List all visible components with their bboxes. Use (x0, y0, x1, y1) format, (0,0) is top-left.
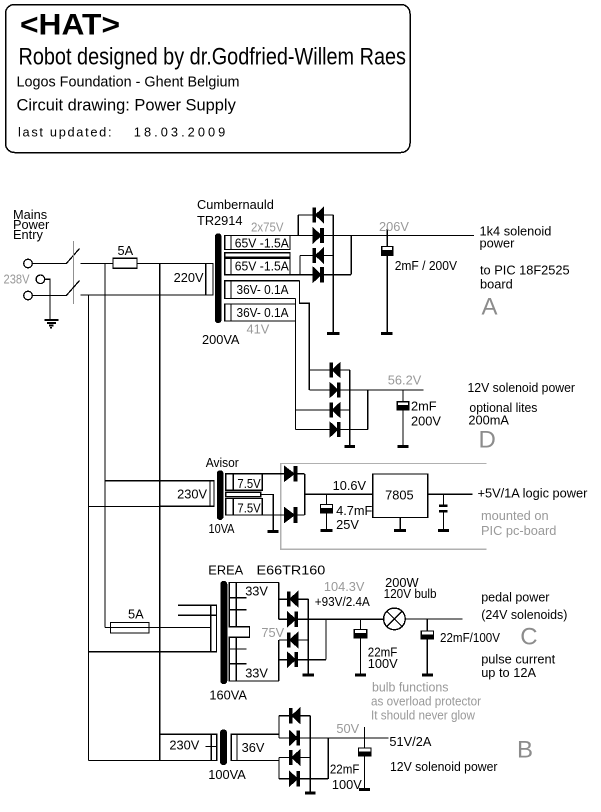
wire d11 row (279, 598, 309, 600)
diode D9 (285, 467, 297, 481)
wire DC out to 7805 (305, 493, 373, 495)
wire bus1 to erea primary bottom (89, 651, 217, 653)
wire bus1 to avisor primary bottom (89, 505, 215, 507)
svg-text:230V: 230V (169, 738, 199, 753)
wire d14 cathode join (325, 619, 327, 659)
node 36V-B drop to bridge D (295, 299, 297, 430)
svg-text:A: A (482, 293, 498, 320)
center tap avisor (226, 492, 261, 496)
svg-text:to PIC 18F2525: to PIC 18F2525 (480, 262, 570, 277)
ground mains (44, 319, 58, 321)
svg-text:Entry: Entry (13, 227, 43, 242)
wire d8 cathode join (367, 390, 369, 430)
wire d14 row (279, 659, 326, 661)
wire fuse to primary (137, 263, 213, 265)
svg-text:220V: 220V (174, 270, 204, 285)
wire d5 row (309, 369, 350, 371)
56.2V output rail D (309, 389, 423, 391)
node1 B vertical (278, 716, 280, 738)
winding 36V box B (231, 734, 279, 760)
diode D3 (313, 249, 323, 263)
svg-text:+93V/2.4A: +93V/2.4A (315, 594, 370, 609)
svg-text:mounted on: mounted on (481, 508, 549, 523)
ground bar center tap (268, 530, 279, 533)
svg-text:22mF/100V: 22mF/100V (440, 630, 500, 645)
svg-text:22mF: 22mF (330, 762, 360, 777)
wire L to switch (33, 263, 67, 265)
winding 36V-0.1A upper box (225, 281, 300, 299)
diode D14 (288, 653, 298, 667)
primary B tap tick (206, 746, 217, 748)
ground bar C1 (381, 332, 393, 335)
svg-text:4.7mF: 4.7mF (336, 503, 372, 518)
svg-text:50V: 50V (336, 721, 359, 736)
center tap 2x75V (225, 253, 290, 257)
diode D6 (330, 383, 340, 397)
svg-text:120V bulb: 120V bulb (384, 586, 437, 601)
wire switch2 / primary bottom (81, 294, 213, 296)
wire bridge join avisor (304, 474, 306, 515)
diode D16 (290, 731, 300, 745)
svg-text:36V- 0.1A: 36V- 0.1A (237, 282, 289, 297)
capacitor C7 lead + 50V tick (364, 727, 366, 748)
svg-text:Circuit drawing: Power Supply: Circuit drawing: Power Supply (17, 97, 237, 115)
ground bar C4 (438, 529, 449, 532)
diode D12 (288, 612, 298, 626)
svg-text:up to 12A: up to 12A (481, 665, 536, 680)
svg-text:41V: 41V (247, 322, 270, 337)
ground bar B rail (305, 791, 316, 794)
ground bar C2 (398, 445, 409, 448)
wire d15 row (279, 715, 310, 717)
winding 2x33V box (229, 583, 279, 682)
wire 7805 output (428, 493, 473, 495)
ground bar C3 (321, 529, 333, 532)
bulb 200W (384, 608, 406, 630)
winding 36V-0.1A lower box (225, 304, 296, 321)
wire d1 row (298, 214, 333, 216)
wire N to switch (33, 295, 67, 297)
mains terminal N (24, 291, 33, 300)
svg-text:75V: 75V (261, 625, 284, 640)
section box D gray (281, 464, 487, 550)
bus 1 (88, 295, 90, 761)
wire switch1 to fuse (81, 263, 114, 265)
wire center tap to ground (261, 494, 273, 530)
wire d3 cathode drop (299, 256, 301, 275)
node1 erea right edge (278, 583, 280, 620)
wire d9 row (262, 473, 305, 475)
winding 65V-1.5A upper box (225, 236, 290, 250)
svg-text:Logos Foundation - Ghent Belgi: Logos Foundation - Ghent Belgium (17, 74, 240, 91)
svg-text:2mF: 2mF (411, 399, 437, 414)
svg-text:2mF / 200V: 2mF / 200V (395, 258, 458, 273)
node winding1 top to bridge A (225, 235, 313, 237)
svg-text:7.5V: 7.5V (237, 501, 261, 516)
svg-text:36V: 36V (242, 740, 265, 755)
svg-text:<HAT>: <HAT> (20, 9, 120, 42)
svg-text:10.6V: 10.6V (333, 478, 367, 493)
wire bus2 to avisor primary top (105, 480, 214, 482)
svg-text:D: D (479, 427, 496, 454)
wire bus1 to B primary bottom (89, 760, 217, 762)
capacitor C1 lead + 206V tick (386, 229, 388, 247)
svg-text:100V: 100V (368, 656, 398, 671)
transformer B primary 230V box (160, 734, 217, 760)
svg-text:65V -1.5A: 65V -1.5A (235, 259, 289, 274)
ground rail D (349, 370, 351, 445)
svg-text:power: power (480, 235, 516, 250)
wire d13 row (279, 639, 309, 641)
svg-text:56.2V: 56.2V (388, 373, 422, 388)
svg-text:B: B (517, 737, 533, 764)
wire d18 row (279, 778, 328, 780)
svg-text:230V: 230V (177, 486, 207, 501)
svg-text:Avisor: Avisor (206, 455, 240, 470)
ground bar D rail (345, 445, 355, 448)
svg-text:Robot designed by dr.Godfried: Robot designed by dr.Godfried-Willem Rae… (19, 44, 407, 71)
ground bar C rail (303, 673, 315, 676)
diode D2 (313, 229, 323, 243)
ground bar A rail (327, 332, 339, 335)
capacitor C5 22mF (360, 619, 362, 629)
ground rail C (307, 599, 309, 673)
wire 7805 gnd pin (399, 518, 401, 530)
wire d8 row (296, 429, 368, 431)
diode D18 (290, 772, 300, 786)
fuse F1 5A (113, 258, 137, 268)
svg-text:25V: 25V (336, 517, 359, 532)
svg-text:10VA: 10VA (209, 521, 235, 536)
svg-text:It should never glow: It should never glow (371, 708, 476, 723)
svg-text:+5V/1A logic power: +5V/1A logic power (478, 485, 589, 500)
transformer B core (221, 730, 227, 765)
svg-text:bulb functions: bulb functions (372, 680, 448, 695)
svg-text:238V: 238V (4, 272, 30, 287)
diode D8 (330, 423, 340, 437)
wire d3 row (300, 255, 333, 257)
transformer TR2914 primary 220V box (160, 264, 213, 296)
capacitor C1 2mF/200V (382, 247, 393, 251)
transformer EREA primary box (211, 605, 217, 652)
winding 7.5V upper box (226, 474, 262, 491)
ground bar C7 (359, 788, 370, 791)
svg-text:33V: 33V (245, 666, 268, 681)
svg-text:TR2914: TR2914 (197, 213, 243, 228)
svg-text:200V: 200V (411, 413, 441, 428)
wire d1 cathode drop (297, 215, 299, 236)
ground bar C5 (355, 673, 366, 676)
wire d7 row (296, 409, 350, 411)
svg-text:33V: 33V (245, 584, 268, 599)
svg-text:7.5V: 7.5V (237, 476, 261, 491)
capacitor C3 4.7mF (326, 494, 328, 504)
svg-text:206V: 206V (379, 219, 409, 234)
node2 erea right edge (278, 640, 280, 681)
svg-text:100VA: 100VA (208, 767, 246, 782)
diode D15 (290, 709, 300, 723)
capacitor C2 2mF/200V (402, 390, 404, 402)
93V output rail C (279, 618, 384, 620)
wire d18 cathode join (327, 738, 329, 779)
primary tap stub 1 (178, 604, 216, 606)
svg-text:200VA: 200VA (202, 332, 240, 347)
fuse F2 5A (111, 623, 150, 634)
title block border (6, 5, 411, 153)
switch coupling link (72, 241, 74, 304)
ground bar 7805 (394, 529, 406, 532)
svg-text:36V- 0.1A: 36V- 0.1A (237, 305, 289, 320)
svg-text:(24V solenoids): (24V solenoids) (481, 607, 567, 622)
svg-text:Cumbernauld: Cumbernauld (197, 197, 274, 212)
transformer TR2914 core (216, 234, 221, 323)
svg-text:PIC pc-board: PIC pc-board (481, 523, 556, 538)
svg-text:200mA: 200mA (468, 413, 509, 428)
svg-text:51V/2A: 51V/2A (389, 734, 431, 749)
switch blade 2 (66, 281, 80, 296)
wire 238V to ground (45, 279, 50, 319)
svg-text:C: C (520, 624, 537, 651)
svg-text:12V solenoid power: 12V solenoid power (468, 380, 576, 395)
transformer Avisor primary 230V box (160, 481, 214, 507)
transformer EREA core (221, 582, 227, 684)
svg-text:5A: 5A (118, 243, 134, 258)
capacitor C7 22mF/100V (359, 748, 372, 752)
svg-text:2x75V: 2x75V (251, 219, 284, 234)
diode D5 (330, 363, 340, 377)
wire d17 row (279, 757, 310, 759)
capacitor C6 22mF/100V (426, 619, 428, 631)
svg-text:100V: 100V (332, 777, 362, 792)
svg-text:7805: 7805 (385, 488, 413, 503)
regulator U1 7805 (373, 474, 428, 518)
diode D10 (285, 508, 297, 522)
svg-text:EREA: EREA (208, 563, 243, 578)
diode D13 (288, 633, 298, 647)
svg-text:as overload protector: as overload protector (371, 694, 482, 709)
transformer Avisor core (217, 471, 222, 519)
diode D7 (330, 403, 340, 417)
bus 3 (159, 264, 161, 761)
winding ticks (229, 598, 246, 664)
svg-text:5A: 5A (128, 607, 144, 622)
switch blade 1 (66, 249, 80, 264)
primary tap stub 2 (178, 614, 216, 616)
svg-text:E66TR160: E66TR160 (257, 563, 326, 578)
svg-text:12V solenoid power: 12V solenoid power (390, 759, 498, 774)
node 36V-A jog to bridge D (299, 281, 309, 390)
mains terminal 238V (36, 275, 45, 284)
ground rail B (309, 716, 311, 792)
winding 7.5V lower box (226, 499, 262, 516)
svg-text:board: board (480, 276, 513, 291)
svg-text:160VA: 160VA (209, 687, 247, 702)
diode D17 (290, 751, 300, 765)
svg-text:65V -1.5A: 65V -1.5A (235, 236, 289, 251)
51V output rail B (279, 737, 389, 739)
ground rail A (332, 215, 334, 332)
node winding1 bottom to d4 (225, 274, 352, 276)
svg-text:pedal power: pedal power (481, 590, 550, 605)
diode D4 (313, 268, 323, 282)
wire bulb to right (405, 618, 463, 620)
wire d4 cathode join (350, 236, 352, 275)
mains terminal L (24, 259, 33, 268)
winding 65V-1.5A lower box (225, 258, 290, 275)
capacitor C4 output (443, 494, 445, 505)
ground bar C6 (422, 673, 433, 676)
node2 B vertical (278, 758, 280, 779)
diode D1 (313, 208, 323, 222)
svg-text:104.3V: 104.3V (324, 579, 365, 594)
206V output rail A (323, 235, 474, 237)
diode D11 (288, 592, 298, 606)
wire bus2 to fuse2 (105, 627, 211, 629)
wire d10 row (262, 514, 305, 516)
bus 2 (104, 264, 106, 628)
